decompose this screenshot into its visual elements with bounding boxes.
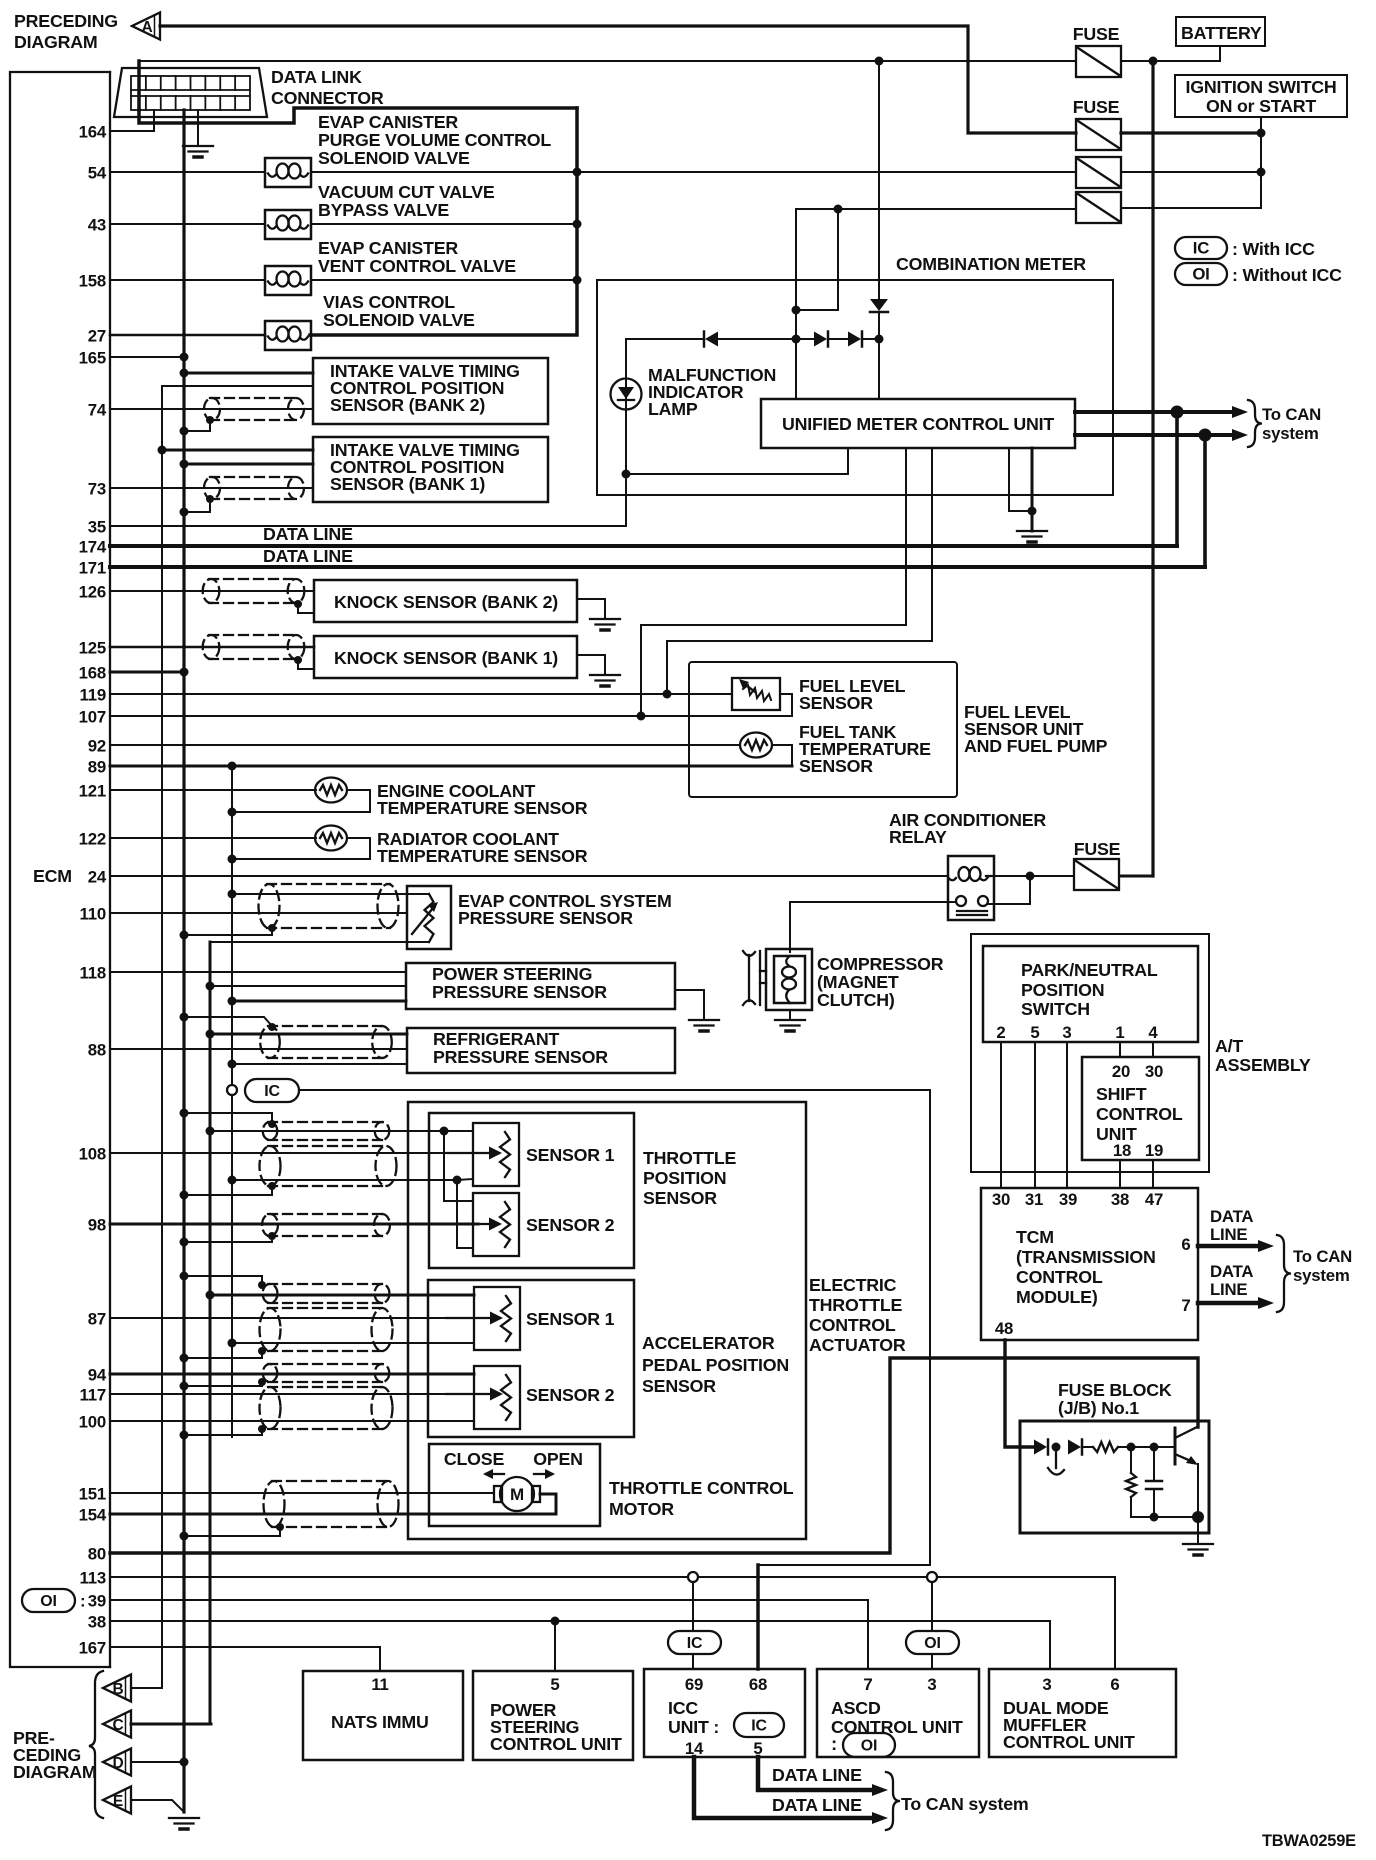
motor M throttle control xyxy=(494,1477,540,1511)
sensor fuel level (variable resistor) xyxy=(732,678,780,710)
wire data line row 174 xyxy=(110,544,1177,548)
wire pin 98 row xyxy=(110,1223,478,1226)
wire PN switch 5 to TCM 31 xyxy=(1034,1042,1036,1188)
ground compressor xyxy=(775,1020,805,1031)
wire pin 39 row xyxy=(110,1599,868,1601)
wire pin 73 row xyxy=(110,487,313,489)
wire IC to ICC unit 68 xyxy=(299,1090,930,1565)
wire pin 126 row xyxy=(110,590,314,592)
svg-text:REFRIGERANT: REFRIGERANT xyxy=(433,1029,560,1049)
wire D6 to R1 xyxy=(1082,1446,1093,1448)
node bus D xyxy=(180,1758,189,1767)
svg-text:KNOCK SENSOR (BANK 2): KNOCK SENSOR (BANK 2) xyxy=(334,592,558,612)
wire D to bus x184 xyxy=(131,1761,184,1763)
wire pin 38 row xyxy=(110,1620,1050,1622)
wire bus x210 supply xyxy=(209,942,212,1724)
node bus tubeE drain xyxy=(180,1431,189,1440)
svg-text:35: 35 xyxy=(88,518,106,537)
svg-text:122: 122 xyxy=(79,830,106,849)
svg-text:TBWA0259E: TBWA0259E xyxy=(1262,1832,1356,1850)
node A preceding diagram arrow xyxy=(132,13,160,40)
node battery rail top xyxy=(1149,57,1158,66)
svg-text:KNOCK SENSOR (BANK 1): KNOCK SENSOR (BANK 1) xyxy=(334,648,558,668)
shield accel s2 feed cable xyxy=(263,1364,389,1382)
wire ICC 69 drop lower xyxy=(692,1654,694,1669)
svg-text:20: 20 xyxy=(1112,1062,1130,1081)
wire ICC 5 data line xyxy=(758,1757,878,1790)
wire fuse4 feed row xyxy=(796,208,1076,210)
svg-text:IC: IC xyxy=(751,1718,767,1735)
wire tps tube1 drain xyxy=(184,1113,272,1123)
node motor tube drain xyxy=(276,1523,284,1531)
wire fuel level sensor right xyxy=(780,694,792,716)
node meter ground join xyxy=(1028,507,1037,516)
wire meter ground branch xyxy=(1009,448,1032,511)
AT assembly outer box xyxy=(971,934,1209,1172)
node diode row mid xyxy=(792,335,801,344)
node row 119 junction xyxy=(663,690,672,699)
wire PN switch 3 to TCM 39 xyxy=(1066,1042,1068,1188)
wire CAN low from meter xyxy=(1075,433,1236,437)
shift control unit box xyxy=(1082,1057,1199,1160)
svg-text:A: A xyxy=(142,19,153,36)
arrow ICC data 14 xyxy=(872,1812,888,1824)
sensor radiator coolant temperature xyxy=(315,826,347,851)
wire to C1 xyxy=(1153,1447,1155,1480)
svg-text:SENSOR (BANK 2): SENSOR (BANK 2) xyxy=(330,395,485,415)
wire shift 19 to TCM 47 xyxy=(1152,1160,1154,1188)
node tps drain feed xyxy=(180,1109,189,1118)
svg-text:CONTROL: CONTROL xyxy=(809,1315,896,1335)
wire to R2 xyxy=(1130,1447,1132,1473)
svg-text:39: 39 xyxy=(1059,1190,1077,1209)
wire fuel tank temp right xyxy=(772,745,792,766)
contacts AC relay xyxy=(956,896,988,915)
wire battery rail vertical xyxy=(1151,61,1154,876)
ignition switch box xyxy=(1175,75,1347,117)
wire pin 94 row xyxy=(110,1373,474,1376)
svg-text:54: 54 xyxy=(88,164,107,183)
wire tubeB drain xyxy=(184,1351,262,1358)
svg-text:SENSOR: SENSOR xyxy=(799,756,873,776)
wire pin 158 to solenoid xyxy=(110,279,265,281)
node R2 top xyxy=(1127,1443,1136,1452)
svg-text:DATA LINE: DATA LINE xyxy=(772,1795,862,1815)
svg-text:LAMP: LAMP xyxy=(648,399,698,419)
svg-text:SOLENOID VALVE: SOLENOID VALVE xyxy=(323,310,475,330)
svg-text:PURGE VOLUME CONTROL: PURGE VOLUME CONTROL xyxy=(318,130,551,150)
svg-text:To CAN system: To CAN system xyxy=(901,1794,1029,1814)
wire pot1 top conn xyxy=(444,1130,473,1132)
intake valve timing sensor bank2 box xyxy=(313,358,548,424)
arrow close direction xyxy=(483,1469,504,1479)
svg-text:SENSOR: SENSOR xyxy=(799,693,873,713)
svg-text:OI: OI xyxy=(924,1635,940,1652)
wire accel feed 5v xyxy=(210,1294,474,1297)
wire tube2 drain xyxy=(184,1186,272,1195)
svg-text:88: 88 xyxy=(88,1041,106,1060)
node bus tube98 drain xyxy=(180,1238,189,1247)
brace to CAN system xyxy=(1248,400,1262,447)
svg-text:E: E xyxy=(113,1793,123,1810)
shield accel s2 cable xyxy=(260,1387,393,1429)
svg-text:BYPASS VALVE: BYPASS VALVE xyxy=(318,200,449,220)
svg-text:LINE: LINE xyxy=(1210,1225,1247,1244)
svg-text:PRECEDING: PRECEDING xyxy=(14,11,118,31)
shield knock bank1 cable xyxy=(203,635,305,659)
svg-text:18: 18 xyxy=(1113,1141,1131,1160)
svg-text:7: 7 xyxy=(1181,1296,1190,1315)
wire feed to pot2 xyxy=(443,1131,445,1201)
svg-text:5: 5 xyxy=(1030,1023,1039,1042)
svg-text:SENSOR 1: SENSOR 1 xyxy=(526,1309,615,1329)
svg-text:SENSOR 2: SENSOR 2 xyxy=(526,1385,615,1405)
svg-text:2: 2 xyxy=(996,1023,1005,1042)
park neutral position switch box xyxy=(983,946,1198,1042)
wire fuse1 to battery xyxy=(1121,46,1220,61)
wire pin 100 row xyxy=(110,1420,474,1422)
ground DLC xyxy=(183,146,213,157)
svg-text::: : xyxy=(831,1733,837,1754)
svg-text:ACCELERATOR: ACCELERATOR xyxy=(642,1333,775,1353)
wire fuse2 to ignition xyxy=(1121,131,1261,134)
wire pin 118 row xyxy=(110,971,406,973)
node accel feed xyxy=(206,1291,215,1300)
svg-text:69: 69 xyxy=(685,1675,703,1694)
wire relay to AC fuse xyxy=(994,875,1074,877)
svg-text:PRESSURE SENSOR: PRESSURE SENSOR xyxy=(433,1047,608,1067)
wire refrigerant pin1 xyxy=(210,1033,407,1036)
wire power steering unit pin5 drop xyxy=(554,1621,556,1671)
wire diode row segment2 xyxy=(828,338,848,340)
fuse F2 ignition xyxy=(1076,119,1121,150)
wire B to bus x162 xyxy=(131,1687,162,1689)
node knock2 drain xyxy=(294,600,302,608)
node bus 165 xyxy=(180,353,189,362)
node bus tubeB drain xyxy=(180,1354,189,1363)
wire MIL to unified meter xyxy=(626,448,848,474)
wire R1 to transistor base xyxy=(1118,1446,1175,1448)
wire pin 168 row xyxy=(110,671,184,674)
svg-text:VACUUM CUT VALVE: VACUUM CUT VALVE xyxy=(318,182,495,202)
svg-text:M: M xyxy=(510,1485,524,1504)
wire pin 125 row xyxy=(110,646,314,649)
svg-text:IC: IC xyxy=(687,1635,703,1652)
shield intake bank2 cable xyxy=(204,398,304,420)
ASCD control unit box xyxy=(817,1669,979,1757)
wire DLC ground xyxy=(197,110,199,146)
wire meter to fuel level pin 119 xyxy=(667,448,932,694)
wire tube98 drain xyxy=(184,1236,272,1242)
arrow ICC data 5 xyxy=(872,1784,888,1796)
svg-text:39: 39 xyxy=(88,1592,106,1611)
wire pin 80 row to fuse block xyxy=(110,1358,1198,1553)
node B preceding diagram xyxy=(103,1675,131,1702)
svg-text:IC: IC xyxy=(264,1083,280,1100)
svg-text:IC: IC xyxy=(1193,239,1209,258)
potentiometer accel sensor 2 xyxy=(446,1366,520,1429)
svg-text:121: 121 xyxy=(79,782,106,801)
wire pin 119 row xyxy=(110,693,732,695)
accelerator pedal position sensor box xyxy=(428,1280,634,1437)
svg-text:THROTTLE CONTROL: THROTTLE CONTROL xyxy=(609,1478,794,1498)
svg-text:OI: OI xyxy=(40,1593,56,1610)
diode D1 (left) MIL row xyxy=(704,332,718,347)
wire C1 bottom xyxy=(1153,1489,1155,1517)
wire pin 54 to solenoid xyxy=(110,171,265,173)
svg-text:165: 165 xyxy=(79,349,106,368)
wire knock2 ground xyxy=(577,599,605,619)
svg-text:108: 108 xyxy=(79,1145,106,1164)
node ICC 69 tap xyxy=(688,1572,698,1582)
svg-text:98: 98 xyxy=(88,1216,106,1235)
node bus coolant2 xyxy=(228,855,237,864)
node C preceding diagram xyxy=(103,1711,131,1738)
brace bottom to CAN xyxy=(886,1772,900,1830)
wire pin 92 row xyxy=(110,744,740,746)
wire pot1 bottom conn xyxy=(457,1179,473,1180)
relay AC box xyxy=(948,856,994,920)
wire radiator coolant return xyxy=(232,838,370,859)
svg-text:MOTOR: MOTOR xyxy=(609,1499,674,1519)
svg-text:CONTROL: CONTROL xyxy=(1096,1104,1183,1124)
OI oval ASCD xyxy=(906,1631,959,1654)
wire intake bank2 second xyxy=(162,385,313,387)
svg-text:PARK/NEUTRAL: PARK/NEUTRAL xyxy=(1021,960,1158,980)
wire relay contact right xyxy=(988,876,1030,904)
svg-text:DATA: DATA xyxy=(1210,1207,1253,1226)
node feed bus row 158 xyxy=(573,276,582,285)
svg-text:117: 117 xyxy=(80,1386,106,1405)
node bus drain b1 xyxy=(180,508,189,517)
solenoid L4 VIAS control xyxy=(265,321,311,350)
wire pin 88 row xyxy=(110,1048,407,1050)
svg-text:TEMPERATURE SENSOR: TEMPERATURE SENSOR xyxy=(377,846,588,866)
IC oval mid xyxy=(245,1079,299,1102)
wire ASCD 3 drop upper xyxy=(931,1582,933,1631)
wire muffler pin 6 drop xyxy=(1114,1577,1116,1669)
legend IC oval xyxy=(1175,237,1227,259)
svg-text:VIAS CONTROL: VIAS CONTROL xyxy=(323,292,455,312)
wire evap drain to bus xyxy=(184,928,272,935)
wire solenoid feed bus xyxy=(310,108,577,335)
node bus 168 xyxy=(180,668,189,677)
wire ICC pin 68 vertical xyxy=(756,1565,760,1669)
wire pin 121 row xyxy=(110,789,316,791)
wire accel tubeA drain xyxy=(184,1276,262,1284)
fuse block box xyxy=(1020,1421,1209,1533)
node relay output xyxy=(1026,872,1035,881)
svg-text:: Without ICC: : Without ICC xyxy=(1232,265,1342,285)
shield knock bank2 cable xyxy=(203,579,305,603)
node row 107 junction xyxy=(637,712,646,721)
svg-text:94: 94 xyxy=(88,1366,107,1385)
svg-text:MODULE): MODULE) xyxy=(1016,1287,1098,1307)
svg-text:SENSOR: SENSOR xyxy=(642,1376,716,1396)
svg-text:ASSEMBLY: ASSEMBLY xyxy=(1215,1055,1311,1075)
diode D2 meter row xyxy=(814,332,828,347)
wire pin 154 row xyxy=(110,1513,556,1516)
wire pin 43 to solenoid xyxy=(110,223,265,225)
wire compressor ground xyxy=(789,1010,791,1020)
wire MIL diode row xyxy=(626,338,704,340)
wire refrigerant shield drain xyxy=(184,1017,272,1026)
svg-text:4: 4 xyxy=(1148,1023,1158,1042)
wire R2 bottom xyxy=(1130,1497,1132,1517)
svg-text:POSITION: POSITION xyxy=(1021,980,1104,1000)
data link connector outline xyxy=(114,68,267,117)
svg-text:VENT CONTROL VALVE: VENT CONTROL VALVE xyxy=(318,256,516,276)
svg-text:FUSE: FUSE xyxy=(1073,24,1120,44)
svg-text:: With ICC: : With ICC xyxy=(1232,239,1315,259)
svg-text:B: B xyxy=(113,1681,124,1698)
svg-text:ECM: ECM xyxy=(33,866,72,886)
svg-text:To CAN: To CAN xyxy=(1293,1247,1352,1266)
wire A feed to fuse 2 xyxy=(160,26,1076,133)
ground knock sensor bank1 xyxy=(590,675,620,686)
unified meter control unit box xyxy=(761,399,1075,448)
svg-text:11: 11 xyxy=(371,1675,388,1694)
wire PN switch 4 to shift 30 xyxy=(1152,1042,1154,1057)
resistor R2 fuse block xyxy=(1126,1473,1136,1497)
svg-text:3: 3 xyxy=(1042,1675,1051,1694)
shield motor cable xyxy=(264,1481,399,1527)
svg-text:ACTUATOR: ACTUATOR xyxy=(809,1335,906,1355)
svg-text:31: 31 xyxy=(1025,1190,1043,1209)
svg-text:SENSOR: SENSOR xyxy=(643,1188,717,1208)
node fuse4 branch xyxy=(834,205,843,214)
svg-text:EVAP CANISTER: EVAP CANISTER xyxy=(318,238,458,258)
node C1 top xyxy=(1150,1443,1159,1452)
svg-text:30: 30 xyxy=(992,1190,1010,1209)
node tube2 drain dot xyxy=(268,1182,276,1190)
wire PN switch 1 to shift 20 xyxy=(1119,1042,1121,1057)
wire muffler pin 3 drop xyxy=(1049,1621,1051,1669)
svg-text:TCM: TCM xyxy=(1016,1227,1054,1247)
wire ASCD pin 7 drop xyxy=(867,1600,869,1669)
svg-text:1: 1 xyxy=(1115,1023,1124,1042)
svg-text:OI: OI xyxy=(1192,265,1209,284)
wire ASCD 3 drop lower xyxy=(931,1654,933,1669)
wire pin 35 row xyxy=(110,474,626,526)
svg-text:164: 164 xyxy=(79,123,107,142)
svg-text:ON or START: ON or START xyxy=(1206,96,1316,116)
diode D6 fuse block xyxy=(1068,1440,1082,1455)
svg-text:OPEN: OPEN xyxy=(533,1449,583,1469)
node bus evap drain xyxy=(180,931,189,940)
node tubeE drain dot xyxy=(258,1425,266,1433)
svg-text:SENSOR (BANK 1): SENSOR (BANK 1) xyxy=(330,474,485,494)
power steering pressure sensor box xyxy=(406,963,675,1009)
ground fuse block xyxy=(1183,1544,1213,1555)
svg-text:IGNITION SWITCH: IGNITION SWITCH xyxy=(1185,77,1336,97)
wire shift 18 to TCM 38 xyxy=(1119,1160,1121,1188)
node emitter junction xyxy=(1192,1511,1204,1523)
svg-text:38: 38 xyxy=(88,1613,106,1632)
wire tps ground xyxy=(232,1179,457,1181)
wire accel ground xyxy=(232,1342,474,1344)
capacitor C1 fuse block xyxy=(1146,1481,1162,1489)
svg-text:PRESSURE SENSOR: PRESSURE SENSOR xyxy=(432,982,607,1002)
solenoid L1 EVAP canister purge volume control xyxy=(265,158,311,187)
wire pin 165 row xyxy=(110,356,184,358)
wire CAN high to data line 174 xyxy=(1175,412,1179,546)
svg-text:THROTTLE: THROTTLE xyxy=(643,1148,737,1168)
svg-text:38: 38 xyxy=(1111,1190,1129,1209)
svg-text:110: 110 xyxy=(80,905,106,924)
svg-text:6: 6 xyxy=(1110,1675,1119,1694)
shield accel feed cable xyxy=(263,1284,390,1303)
svg-text:119: 119 xyxy=(80,686,106,705)
svg-text:118: 118 xyxy=(80,964,106,983)
node tube1 drain dot xyxy=(268,1120,276,1128)
svg-text:SHIFT: SHIFT xyxy=(1096,1084,1147,1104)
ground knock sensor bank2 xyxy=(590,619,620,630)
wire emitter down xyxy=(1197,1464,1199,1517)
wire pin 27 to VIAS solenoid xyxy=(110,334,265,337)
lamp MIL malfunction indicator xyxy=(611,379,642,410)
arrow CAN high xyxy=(1232,406,1248,418)
svg-text:DIAGRAM: DIAGRAM xyxy=(13,1762,97,1782)
svg-text:POWER STEERING: POWER STEERING xyxy=(432,964,592,984)
electric throttle control actuator box xyxy=(408,1102,806,1539)
node D preceding diagram xyxy=(103,1749,131,1776)
wire ps sensor pin2 xyxy=(210,985,406,987)
node MIL cathode xyxy=(622,470,631,479)
svg-text:ASCD: ASCD xyxy=(831,1698,881,1718)
wire C to bus x210 xyxy=(131,1723,211,1726)
svg-text:PEDAL POSITION: PEDAL POSITION xyxy=(642,1355,789,1375)
svg-text:CONTROL: CONTROL xyxy=(1016,1267,1103,1287)
wire pin 122 row xyxy=(110,837,316,839)
node refr pin1 xyxy=(206,1030,215,1039)
svg-text:FUSE BLOCK: FUSE BLOCK xyxy=(1058,1380,1172,1400)
node intake b2 feed xyxy=(180,369,189,378)
svg-text:7: 7 xyxy=(863,1675,872,1694)
wire diode D4 to unified meter xyxy=(878,312,880,399)
fuse F3 xyxy=(1076,157,1121,188)
wire motor right terminal xyxy=(540,1494,556,1514)
svg-text:FUSE: FUSE xyxy=(1074,839,1121,859)
svg-text:87: 87 xyxy=(88,1310,106,1329)
node accel ground tap xyxy=(228,1339,237,1348)
brace preceding bottom xyxy=(89,1671,103,1818)
node tube98 drain dot xyxy=(268,1232,276,1240)
coil hook fuse block xyxy=(1048,1447,1064,1475)
shield evap pressure cable xyxy=(259,884,399,928)
svg-text:30: 30 xyxy=(1145,1062,1163,1081)
svg-text:system: system xyxy=(1293,1266,1350,1285)
svg-text:(J/B) No.1: (J/B) No.1 xyxy=(1058,1398,1139,1418)
wire knock1 drain to box xyxy=(298,660,314,669)
resistor evap sensor element xyxy=(425,894,434,942)
diode D5 fuse block xyxy=(1034,1440,1048,1455)
wire shield drain bank2 xyxy=(184,420,210,431)
wire fuse block ground xyxy=(1197,1517,1199,1544)
svg-text:DATA: DATA xyxy=(1210,1262,1253,1281)
resistor R1 fuse block xyxy=(1093,1442,1118,1452)
node feed bus row 54 xyxy=(573,168,582,177)
node tps ground tap xyxy=(228,1176,237,1185)
wire pin 89 row xyxy=(110,765,792,768)
svg-text:DATA LINK: DATA LINK xyxy=(271,67,362,87)
wire tubeE drain xyxy=(184,1429,262,1435)
wire tps feed 5v xyxy=(210,1130,444,1132)
node refr drain xyxy=(180,1013,189,1022)
svg-text:COMBINATION METER: COMBINATION METER xyxy=(896,254,1086,274)
wire NATS pin 11 drop xyxy=(379,1647,381,1671)
svg-text:D: D xyxy=(113,1755,124,1772)
